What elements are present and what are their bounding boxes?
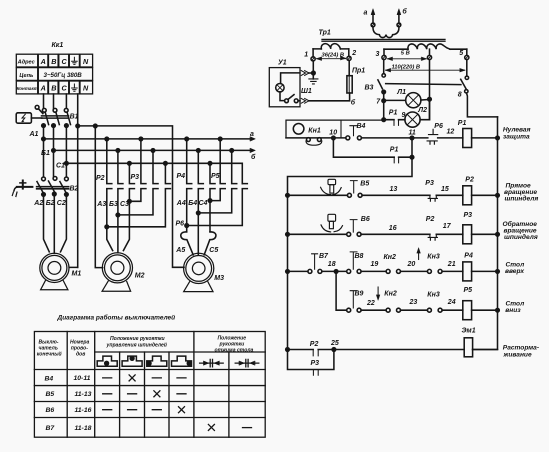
svg-text:23: 23 — [409, 299, 418, 306]
svg-text:В3: В3 — [365, 84, 374, 91]
svg-text:Р1: Р1 — [390, 147, 399, 154]
svg-text:9: 9 — [402, 112, 406, 119]
svg-text:В6: В6 — [361, 216, 370, 223]
svg-text:Кн1: Кн1 — [308, 127, 321, 134]
svg-text:В: В — [51, 84, 56, 93]
svg-text:19: 19 — [371, 261, 379, 268]
svg-text:В7: В7 — [46, 425, 56, 432]
svg-text:управления шпинделей: управления шпинделей — [106, 342, 168, 349]
svg-text:8: 8 — [458, 91, 462, 98]
svg-text:10-11: 10-11 — [74, 375, 91, 382]
svg-text:С2: С2 — [57, 200, 66, 207]
svg-text:Р1: Р1 — [389, 110, 398, 117]
svg-text:3: 3 — [376, 51, 380, 58]
svg-text:Л1: Л1 — [396, 89, 406, 96]
svg-text:N: N — [83, 84, 89, 93]
svg-text:11-13: 11-13 — [75, 391, 92, 398]
svg-text:20: 20 — [407, 261, 416, 268]
svg-text:Р2: Р2 — [426, 216, 435, 223]
svg-text:21: 21 — [447, 261, 456, 268]
svg-text:живание: живание — [503, 351, 532, 358]
svg-text:36(24) В: 36(24) В — [322, 52, 345, 58]
svg-text:Кн3: Кн3 — [427, 253, 440, 260]
svg-text:шпинделя: шпинделя — [505, 195, 539, 203]
svg-text:Б2: Б2 — [46, 200, 55, 207]
svg-text:Кн3: Кн3 — [427, 292, 440, 299]
svg-text:N: N — [83, 57, 89, 66]
svg-text:22: 22 — [366, 300, 375, 307]
svg-text:24: 24 — [447, 299, 456, 306]
svg-text:вниз: вниз — [505, 307, 521, 314]
svg-text:2: 2 — [351, 50, 356, 57]
svg-text:Р1: Р1 — [458, 120, 467, 127]
svg-text:б: б — [351, 98, 356, 106]
svg-text:1: 1 — [304, 51, 308, 58]
svg-text:16: 16 — [389, 225, 397, 232]
svg-text:В9: В9 — [355, 290, 364, 297]
svg-text:дов: дов — [76, 352, 85, 358]
svg-text:М3: М3 — [214, 275, 224, 282]
svg-text:Р2: Р2 — [96, 175, 105, 182]
svg-text:Р3: Р3 — [311, 360, 320, 367]
svg-text:17: 17 — [443, 223, 452, 230]
svg-text:11-16: 11-16 — [75, 407, 92, 414]
svg-text:11-18: 11-18 — [75, 425, 92, 432]
svg-text:С: С — [62, 57, 68, 66]
svg-text:5 В: 5 В — [401, 50, 410, 56]
svg-text:А3: А3 — [96, 201, 106, 208]
svg-text:12: 12 — [447, 129, 455, 136]
svg-text:Р4: Р4 — [177, 173, 186, 180]
svg-text:А5: А5 — [175, 247, 185, 254]
svg-text:С4: С4 — [199, 200, 208, 207]
svg-text:15: 15 — [441, 186, 449, 193]
svg-text:В: В — [51, 57, 56, 66]
svg-text:Тр1: Тр1 — [319, 30, 331, 37]
svg-text:б: б — [402, 8, 407, 16]
svg-text:Кн2: Кн2 — [384, 254, 397, 261]
svg-text:В5: В5 — [360, 180, 369, 187]
svg-text:В8: В8 — [355, 253, 364, 260]
svg-text:Расторма-: Расторма- — [503, 344, 539, 351]
svg-text:А4: А4 — [176, 200, 186, 207]
svg-text:Р2: Р2 — [465, 177, 474, 184]
svg-text:Нулевая: Нулевая — [503, 127, 531, 134]
svg-text:С1: С1 — [56, 162, 65, 169]
svg-text:Положение рукоятки: Положение рукоятки — [110, 336, 166, 342]
svg-text:конечный: конечный — [37, 351, 63, 358]
svg-text:Диаграмма работы выключателе: Диаграмма работы выключателей — [57, 313, 176, 321]
svg-text:Р2: Р2 — [310, 341, 319, 348]
svg-text:М1: М1 — [72, 271, 82, 278]
svg-text:В7: В7 — [319, 253, 329, 260]
svg-text:М2: М2 — [135, 273, 145, 280]
svg-text:А1: А1 — [29, 131, 39, 138]
svg-text:защита: защита — [503, 134, 530, 141]
svg-text:А2: А2 — [33, 200, 43, 207]
svg-text:Р3: Р3 — [131, 174, 140, 181]
svg-text:Ш1: Ш1 — [301, 88, 312, 95]
svg-text:3~50Гц 380В: 3~50Гц 380В — [44, 72, 83, 79]
svg-text:11: 11 — [409, 130, 416, 137]
svg-text:С: С — [62, 84, 68, 93]
svg-text:10: 10 — [329, 129, 337, 136]
svg-text:Р3: Р3 — [425, 180, 434, 187]
svg-text:В2: В2 — [70, 185, 79, 192]
svg-text:а: а — [250, 131, 254, 138]
svg-text:В5: В5 — [46, 391, 55, 398]
svg-text:Р3: Р3 — [464, 212, 473, 219]
svg-text:В1: В1 — [70, 113, 79, 120]
svg-text:отжима стола: отжима стола — [215, 348, 254, 354]
svg-text:шпинделя: шпинделя — [504, 233, 538, 241]
svg-text:а: а — [364, 10, 368, 17]
svg-text:Цепь: Цепь — [19, 73, 33, 79]
svg-text:Р5: Р5 — [464, 287, 473, 294]
svg-text:Кн2: Кн2 — [384, 291, 397, 298]
svg-text:вверх: вверх — [505, 268, 524, 275]
svg-text:Б3: Б3 — [109, 201, 118, 208]
svg-text:В4: В4 — [357, 123, 366, 130]
svg-text:13: 13 — [390, 186, 398, 193]
svg-text:Кк1: Кк1 — [52, 42, 64, 49]
svg-text:Л2: Л2 — [417, 107, 427, 114]
svg-text:110(220) В: 110(220) В — [392, 65, 421, 71]
svg-text:Р6: Р6 — [434, 123, 443, 130]
svg-text:С5: С5 — [209, 247, 218, 254]
svg-text:5: 5 — [459, 50, 463, 57]
svg-text:б: б — [251, 153, 256, 161]
svg-text:С3: С3 — [120, 201, 129, 208]
svg-text:Адрес: Адрес — [17, 59, 36, 65]
svg-text:25: 25 — [330, 340, 339, 347]
svg-text:Б4: Б4 — [188, 200, 197, 207]
svg-text:Контакт: Контакт — [17, 86, 38, 91]
svg-text:Р4: Р4 — [464, 253, 473, 260]
svg-text:Б1: Б1 — [41, 150, 50, 157]
svg-text:В4: В4 — [45, 375, 54, 382]
svg-text:Р6: Р6 — [176, 221, 185, 228]
svg-text:А: А — [40, 57, 46, 66]
svg-text:18: 18 — [328, 261, 336, 268]
svg-text:Пр1: Пр1 — [352, 68, 365, 75]
svg-text:В6: В6 — [46, 407, 55, 414]
svg-text:Р5: Р5 — [211, 173, 220, 180]
svg-text:А: А — [40, 84, 46, 93]
svg-text:Эм1: Эм1 — [462, 328, 476, 335]
svg-text:У1: У1 — [278, 60, 287, 67]
